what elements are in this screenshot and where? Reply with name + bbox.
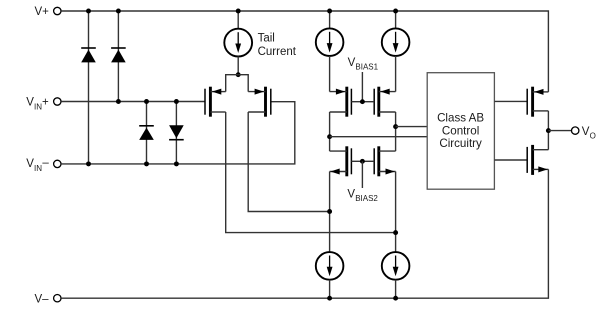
svg-text:V–: V– xyxy=(35,293,50,305)
svg-text:V+: V+ xyxy=(35,6,50,18)
wire diode D2 column xyxy=(117,11,119,102)
label VIN- xyxy=(26,157,49,173)
label VBIAS1 xyxy=(348,57,379,72)
transistor Q5 NMOS left xyxy=(330,146,352,176)
wire I4 to V- xyxy=(329,280,331,299)
diode D2 xyxy=(111,48,126,62)
wire diode D1 column xyxy=(88,11,90,164)
wire Q3 gate lead xyxy=(351,101,362,103)
label V- xyxy=(35,293,50,305)
transistor M8 output NMOS xyxy=(527,145,548,175)
wire I3 top xyxy=(395,11,397,28)
diode D3 xyxy=(139,126,154,140)
wire I2 top xyxy=(329,11,331,28)
svg-text:V: V xyxy=(347,189,355,201)
node output xyxy=(546,128,551,133)
node A cross xyxy=(327,209,332,214)
node VIN+ D4 xyxy=(174,99,179,104)
svg-text:V: V xyxy=(582,126,590,138)
node V+ I3 xyxy=(393,9,398,14)
node A tap xyxy=(327,134,332,139)
current source I3 xyxy=(382,28,410,56)
terminal V+ xyxy=(54,7,61,14)
wire column A lower vertical xyxy=(329,172,331,253)
svg-text:+: + xyxy=(42,96,49,108)
label VBIAS2 xyxy=(347,189,378,204)
transistor Q4 PMOS right xyxy=(374,87,395,117)
terminal VIN- xyxy=(54,160,61,167)
wire VIN- line to Q2 gate xyxy=(61,102,295,164)
svg-text:V: V xyxy=(348,57,356,69)
node B cross xyxy=(393,230,398,235)
wire box to M7 gate xyxy=(494,100,527,102)
label VIN+ xyxy=(26,96,49,111)
diode D1 xyxy=(81,48,96,62)
label VO xyxy=(582,126,596,141)
label V+ xyxy=(35,6,50,18)
node B tap xyxy=(393,124,398,129)
wire I5 to V- xyxy=(395,280,397,299)
current source I4 xyxy=(316,252,344,280)
wire Q2 drain to node A xyxy=(248,112,329,212)
node VIN+ D2 xyxy=(116,99,121,104)
svg-text:BIAS2: BIAS2 xyxy=(355,194,378,203)
wire tail to Q2 source xyxy=(238,75,248,92)
wire Q4 gate lead xyxy=(362,101,374,103)
svg-text:BIAS1: BIAS1 xyxy=(355,63,378,72)
wire column B mid vertical xyxy=(395,112,397,151)
wire diode D3 column xyxy=(146,102,148,164)
node V+ tail xyxy=(236,9,241,14)
wire V- rail xyxy=(61,169,548,298)
wire to VO terminal xyxy=(548,130,571,132)
node VIN- D3 xyxy=(144,161,149,166)
wire I3 bottom xyxy=(395,56,397,92)
svg-text:Class AB: Class AB xyxy=(437,111,484,124)
wire VBIAS2 lead xyxy=(361,161,363,188)
node V+ D2 xyxy=(116,9,121,14)
wire Q6 gate lead xyxy=(362,160,374,162)
node VBIAS1 gates xyxy=(360,99,365,104)
wire I2 bottom xyxy=(329,56,331,92)
wire Q1 drain to node B xyxy=(226,112,396,233)
Class AB Control Circuitry box U1 xyxy=(427,73,494,190)
terminal VIN+ xyxy=(54,98,61,105)
current source I2 xyxy=(316,28,344,56)
wire V+ rail xyxy=(61,11,548,92)
transistor M7 output PMOS xyxy=(527,87,548,117)
svg-text:Current: Current xyxy=(258,46,297,58)
label Tail Current xyxy=(258,32,297,58)
wire node A to box xyxy=(330,136,428,138)
terminal VO xyxy=(572,127,579,134)
wire column A mid vertical xyxy=(329,112,331,151)
current source I1 tail xyxy=(224,29,252,57)
transistor Q6 NMOS right xyxy=(374,146,395,176)
transistor Q1 input PMOS left xyxy=(205,87,226,117)
node VIN- D1 xyxy=(86,161,91,166)
svg-text:Circuitry: Circuitry xyxy=(439,137,482,150)
node tail xyxy=(236,72,241,77)
node V+ I2 xyxy=(327,9,332,14)
wire tail current bottom to node xyxy=(237,57,239,75)
wire node B to box xyxy=(396,126,428,128)
wire tail current top xyxy=(237,11,239,29)
wire box to M8 gate xyxy=(494,159,527,161)
terminal V- xyxy=(54,295,61,302)
svg-text:O: O xyxy=(590,131,596,140)
node VIN- D4 xyxy=(174,161,179,166)
transistor Q2 input PMOS right xyxy=(248,87,271,117)
wire VBIAS1 lead xyxy=(361,72,363,102)
svg-text:IN: IN xyxy=(34,164,42,173)
svg-text:Tail: Tail xyxy=(258,32,275,44)
current source I5 xyxy=(382,252,410,280)
transistor Q3 PMOS left xyxy=(330,87,352,117)
wire diode D4 column xyxy=(175,102,177,164)
wire tail to Q1 source xyxy=(226,75,239,92)
node VBIAS2 gates xyxy=(360,159,365,164)
svg-text:IN: IN xyxy=(34,103,42,112)
svg-text:–: – xyxy=(42,157,49,169)
svg-text:Control: Control xyxy=(442,124,479,137)
wire column B lower vertical xyxy=(395,172,397,253)
wire VIN+ line xyxy=(61,101,205,103)
node V+ D1 xyxy=(86,9,91,14)
wire output node vertical xyxy=(547,111,549,150)
node VIN+ D3 xyxy=(144,99,149,104)
node V- I4 xyxy=(327,296,332,301)
node V- I5 xyxy=(393,296,398,301)
diode D4 xyxy=(169,125,184,139)
wire Q5 gate lead xyxy=(351,160,362,162)
